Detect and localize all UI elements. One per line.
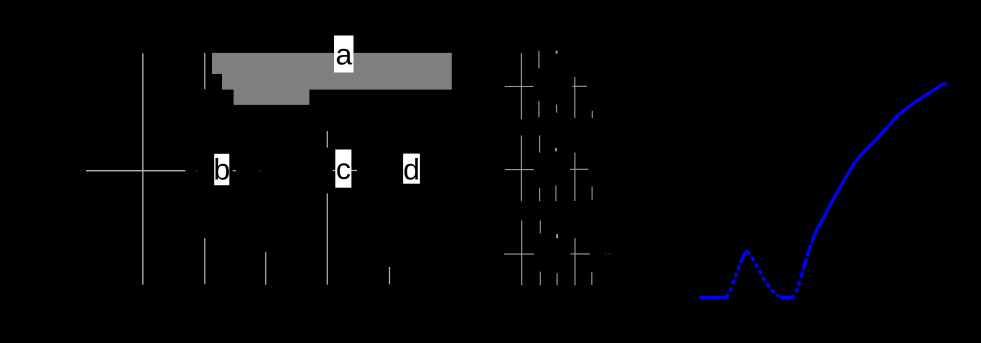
stick S1 lower segment [204, 238, 206, 284]
svg-text:a: a [335, 38, 352, 71]
stick S2 [265, 252, 267, 285]
group2 cross L horizontal [505, 169, 534, 171]
group2 cross R horizontal [570, 168, 588, 170]
stick S3 lower segment [326, 193, 328, 284]
blue curve (potential) [699, 84, 947, 297]
group3 stick 2 top dot [556, 234, 558, 238]
error-bar cross E1 horizontal [86, 170, 185, 172]
label c [335, 150, 351, 188]
group2 stick 3 [591, 187, 593, 200]
svg-text:b: b [213, 154, 230, 187]
group3 cross L horizontal [504, 253, 534, 255]
group2 stick 1 lower [539, 188, 541, 201]
svg-text:c: c [336, 153, 351, 186]
label a [334, 36, 354, 73]
group1 cross R horizontal [572, 85, 587, 87]
crossbar at b [233, 170, 236, 172]
group3 stick 2 lower [556, 273, 558, 285]
stick S4 [389, 267, 391, 284]
group1 stick 2 top dot [556, 51, 558, 54]
stick S3 upper segment [326, 131, 328, 148]
group3 cross R horizontal [571, 253, 590, 255]
group2 cross R vertical [574, 153, 576, 202]
gray band a [212, 53, 452, 105]
group3 faint dots right [605, 253, 612, 255]
dashed overlay on bump descent [750, 254, 777, 295]
faint dotted level line left [80, 170, 260, 172]
label d [403, 154, 420, 187]
group1 stick 3 [591, 111, 593, 118]
group1 stick 1 upper [538, 51, 540, 69]
group1 cross R vertical [574, 77, 576, 118]
dashed overlay on bump left rise [729, 259, 742, 294]
group1 stick 2 lower [556, 105, 558, 113]
group3 cross L vertical [521, 221, 523, 286]
group2 stick 2 top dot [555, 148, 557, 151]
error-bar cross E1 vertical [142, 53, 144, 284]
svg-text:d: d [403, 154, 420, 187]
group1 cross L vertical [520, 53, 522, 119]
stick S1 upper segment [204, 53, 206, 89]
group3 stick 3 [591, 272, 593, 285]
group2 cross L vertical [520, 136, 522, 202]
nick overlay on steep rise upper [803, 236, 815, 272]
group3 cross R vertical [574, 238, 576, 286]
label b [213, 154, 230, 187]
group1 stick 1 lower [538, 101, 540, 117]
crossbar at c [333, 170, 357, 172]
group1 cross L horizontal [505, 86, 534, 88]
group2 stick 2 lower [555, 185, 557, 201]
group2 stick 1 upper [539, 136, 541, 153]
group3 stick 1 lower [539, 272, 541, 286]
dashed overlay on steep rise lower [794, 274, 802, 296]
group3 stick 1 upper [539, 221, 541, 234]
